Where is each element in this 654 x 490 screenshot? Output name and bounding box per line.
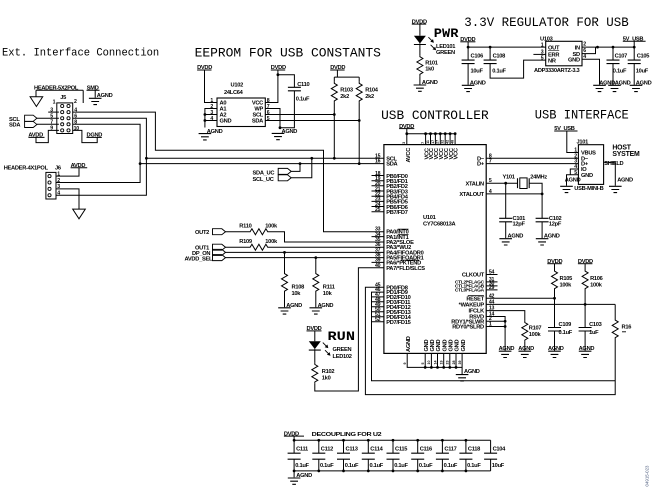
wire 5V_USB to VBUS xyxy=(567,131,579,153)
junction C106 xyxy=(467,46,470,49)
wire U103 IN to 5V_USB xyxy=(582,46,634,48)
junction C110 branch xyxy=(277,73,280,76)
wire DVDD to pullup rail xyxy=(334,70,359,82)
junction rail dots top xyxy=(293,439,296,442)
resistor R102 1k0 xyxy=(312,363,318,384)
wire R111 to AGND xyxy=(315,293,317,307)
junction WAKEUP/R106 xyxy=(584,303,587,306)
capacitor C118 0.1uF xyxy=(465,440,467,471)
wire SMD pad to AGND xyxy=(87,90,100,98)
resistor R101 1k0 xyxy=(417,55,423,76)
capacitor C102 12pF xyxy=(536,218,549,222)
svg-text:PB7/FD7: PB7/FD7 xyxy=(386,210,408,216)
wire C105 to AGND xyxy=(633,64,635,85)
svg-text:1k0: 1k0 xyxy=(322,375,331,381)
junction R104/U101 SDA xyxy=(358,162,361,165)
wire bottom rail to AGND xyxy=(293,471,295,477)
svg-text:R102: R102 xyxy=(322,369,335,375)
wire R108 to AGND xyxy=(284,293,286,307)
led LED102 GREEN xyxy=(309,341,321,350)
svg-text:GND: GND xyxy=(449,340,455,352)
wire OUT1 to R109 xyxy=(226,246,249,248)
svg-text:0.1uF: 0.1uF xyxy=(467,463,481,469)
svg-text:100k: 100k xyxy=(265,223,278,229)
wire XTALOUT xyxy=(486,193,542,195)
wire C108 to U103 NR xyxy=(490,60,546,78)
junction A2 xyxy=(204,113,207,116)
svg-text:C108: C108 xyxy=(493,54,506,60)
svg-text:AVDD_SEL: AVDD_SEL xyxy=(185,256,213,262)
svg-text:RESET: RESET xyxy=(466,296,484,302)
svg-text:R101: R101 xyxy=(425,60,438,66)
wire PB stubs xyxy=(372,176,384,212)
resistor R111 10k xyxy=(313,272,319,293)
svg-text:LED102: LED102 xyxy=(333,354,352,360)
junction RESET/R105 xyxy=(553,297,556,300)
junction XTALIN/C101 xyxy=(504,182,507,185)
junction R104/EEPROM SDA xyxy=(358,119,361,122)
bottom GND rail xyxy=(407,353,462,374)
svg-text:XTALIN: XTALIN xyxy=(465,181,484,187)
junction C105 xyxy=(633,46,636,49)
wire RESET row xyxy=(486,297,554,299)
wire J5 pin8 to SDA vertical xyxy=(73,124,141,163)
svg-text:C118: C118 xyxy=(468,447,480,453)
pin numbers GND xyxy=(403,361,462,365)
wire DVDD to VCC rail xyxy=(407,129,455,145)
svg-text:2k2: 2k2 xyxy=(365,94,374,100)
junction SCL/J5 xyxy=(145,157,148,160)
capacitor C115 0.1uF xyxy=(392,440,394,471)
pin numbers VCC xyxy=(402,140,454,144)
wire J5 pin10 to DGND xyxy=(73,130,98,142)
wire R105 to RESET xyxy=(554,291,556,299)
ground triangle (J6) xyxy=(73,209,86,219)
svg-text:04915-023: 04915-023 xyxy=(644,465,649,487)
wire VCC pin8 to DVDD xyxy=(265,70,278,103)
svg-text:SDA: SDA xyxy=(386,162,397,168)
capacitor C107 0.1uF xyxy=(612,47,614,60)
svg-text:1uF: 1uF xyxy=(589,330,599,336)
wire U103 SD tie to IN xyxy=(582,47,596,54)
svg-text:D+: D+ xyxy=(477,162,485,168)
wire R110 to PA2 xyxy=(272,232,384,242)
svg-text:PWR: PWR xyxy=(434,27,459,41)
junction GND rail dots xyxy=(424,366,427,369)
junction GND xyxy=(204,119,207,122)
wire D- U101 to J101 xyxy=(486,157,578,159)
svg-text:Y101: Y101 xyxy=(503,174,515,180)
wire WP pin7 to AGND xyxy=(265,109,280,128)
svg-text:19: 19 xyxy=(440,361,444,365)
wire SDA flag to J5 pin7 xyxy=(37,123,59,125)
svg-text:0.1uF: 0.1uF xyxy=(492,69,506,75)
svg-text:GREEN: GREEN xyxy=(333,347,352,353)
svg-text:3.3V REGULATOR FOR USB: 3.3V REGULATOR FOR USB xyxy=(464,16,629,30)
wire DVDD to R105 xyxy=(554,264,556,270)
svg-text:GND: GND xyxy=(220,119,232,125)
svg-text:R107: R107 xyxy=(529,326,542,332)
wire R104 to SDA row xyxy=(358,103,360,164)
svg-text:USB CONTROLLER: USB CONTROLLER xyxy=(381,109,489,123)
capacitor C111 0.1uF xyxy=(293,440,295,471)
svg-text:0.1uF: 0.1uF xyxy=(613,69,627,75)
wire to R111 xyxy=(315,258,317,272)
wire CLKOUT CTL stubs xyxy=(486,275,497,290)
svg-text:GND: GND xyxy=(424,340,430,352)
junction SDA/J5 xyxy=(139,162,142,165)
svg-text:PD7/FD15: PD7/FD15 xyxy=(386,320,410,326)
svg-text:10uF: 10uF xyxy=(636,69,649,75)
svg-text:SCL_UC: SCL_UC xyxy=(253,177,274,183)
svg-text:GND: GND xyxy=(442,340,448,352)
svg-text:XTALOUT: XTALOUT xyxy=(459,192,484,198)
pin numbers J5 xyxy=(50,99,79,132)
capacitor C116 0.1uF xyxy=(417,440,419,471)
svg-text:SYSTEM: SYSTEM xyxy=(612,151,640,158)
svg-text:11: 11 xyxy=(426,140,430,144)
svg-text:C111: C111 xyxy=(296,447,308,453)
svg-text:U102: U102 xyxy=(231,83,244,89)
svg-text:GND: GND xyxy=(461,340,467,352)
wire R16 to bottom loop H2 xyxy=(365,287,615,394)
svg-text:CLKOUT: CLKOUT xyxy=(462,273,485,279)
svg-text:100k: 100k xyxy=(560,282,573,288)
led LED101 GREEN xyxy=(414,36,426,45)
wire OUT2 to R110 xyxy=(226,231,249,233)
svg-text:0.1uF: 0.1uF xyxy=(320,463,334,469)
svg-text:PA7/*FLD/SLCS: PA7/*FLD/SLCS xyxy=(386,266,425,272)
svg-text:24LC64: 24LC64 xyxy=(224,90,244,96)
svg-text:R110: R110 xyxy=(239,223,251,229)
svg-text:R105: R105 xyxy=(560,276,573,282)
svg-text:100k: 100k xyxy=(529,332,542,338)
wire DP_ON to PA4 xyxy=(226,251,384,253)
wire C103 to AGND xyxy=(584,331,586,351)
svg-text:C113: C113 xyxy=(346,447,358,453)
svg-text:AGND: AGND xyxy=(565,177,581,183)
svg-text:5: 5 xyxy=(421,363,425,365)
wire RSVD RDY1 RDY0 tie xyxy=(486,317,505,351)
capacitor C104 10uF xyxy=(490,440,492,471)
svg-text:AGND: AGND xyxy=(464,369,480,375)
wire SDA bus row xyxy=(140,163,384,165)
wire AVDD to J6 pin1 xyxy=(56,168,79,176)
svg-text:28: 28 xyxy=(452,361,456,365)
resistor R108 10k xyxy=(282,272,288,293)
svg-text:SDA: SDA xyxy=(252,119,263,125)
wire SDA_UC to SDA xyxy=(291,164,300,172)
wire D+ U101 to J101 xyxy=(486,163,578,165)
wire J5 pin6 to SCL vertical xyxy=(73,118,147,158)
resistor R103 2k2 xyxy=(331,82,337,103)
svg-text:AGND: AGND xyxy=(406,336,412,352)
svg-text:3: 3 xyxy=(402,142,406,144)
svg-text:USB INTERFACE: USB INTERFACE xyxy=(535,109,629,123)
junction SD xyxy=(596,46,599,49)
svg-text:SDA: SDA xyxy=(9,122,20,128)
wire IFCLK to R107 xyxy=(486,311,525,321)
capacitor C105 10uF xyxy=(633,47,635,60)
wire SCL bus row xyxy=(146,157,384,159)
svg-text:OUT: OUT xyxy=(548,45,560,51)
connector J6 xyxy=(46,172,56,199)
wire SCL_UC to SCL xyxy=(291,158,312,178)
wire C106 to AGND xyxy=(467,64,469,85)
svg-text:1: 1 xyxy=(541,42,544,48)
svg-text:GND: GND xyxy=(436,340,442,352)
svg-text:R108: R108 xyxy=(292,285,305,291)
wire C101 stub xyxy=(505,183,507,218)
junction SDA_UC xyxy=(299,162,302,165)
svg-text:27: 27 xyxy=(436,140,440,144)
svg-text:NR: NR xyxy=(548,58,556,64)
svg-text:R109: R109 xyxy=(239,239,252,245)
svg-text:10k: 10k xyxy=(323,291,333,297)
wire R106 to WAKEUP xyxy=(584,291,586,305)
svg-text:C117: C117 xyxy=(444,447,456,453)
svg-text:VCC: VCC xyxy=(454,148,460,159)
wire R107 to AGND xyxy=(524,342,526,351)
ic U101 CY7C68013A box xyxy=(384,145,486,354)
svg-text:0.1uF: 0.1uF xyxy=(370,463,384,469)
junction C108 xyxy=(489,46,492,49)
wire PD2-PD7 stubs xyxy=(372,297,384,322)
wire PA1 PA6 stubs xyxy=(372,237,384,263)
wire SCL flag to J5 pin5 xyxy=(37,117,59,119)
svg-text:10uF: 10uF xyxy=(492,463,505,469)
wire C110 to AGND xyxy=(280,91,294,128)
svg-text:0.1uF: 0.1uF xyxy=(444,463,458,469)
svg-text:AVCC: AVCC xyxy=(406,148,412,163)
svg-text:24MHz: 24MHz xyxy=(530,174,547,180)
wire C109 to AGND xyxy=(554,331,556,351)
wire R102 to PA7 loop xyxy=(315,268,384,391)
capacitor C114 0.1uF xyxy=(367,440,369,471)
wire decoupling top rail xyxy=(294,439,491,441)
svg-text:C105: C105 xyxy=(637,54,650,60)
svg-text:0.1uF: 0.1uF xyxy=(295,463,309,469)
wire branch to C110 xyxy=(278,75,295,88)
svg-text:32: 32 xyxy=(441,140,445,144)
wire EEPROM SCL pin6 xyxy=(265,114,334,116)
svg-text:16: 16 xyxy=(375,159,381,165)
svg-text:23: 23 xyxy=(446,361,450,365)
junction R111 xyxy=(314,256,317,259)
wire J6 pin4 to SCL net xyxy=(56,158,146,195)
svg-text:DECOUPLING FOR U2: DECOUPLING FOR U2 xyxy=(312,432,382,438)
svg-text:7: 7 xyxy=(421,142,425,144)
svg-text:2k2: 2k2 xyxy=(340,94,349,100)
svg-text:U101: U101 xyxy=(423,215,436,221)
svg-text:R111: R111 xyxy=(323,285,335,291)
svg-text:*WAKEUP: *WAKEUP xyxy=(459,303,485,309)
svg-text:10: 10 xyxy=(427,361,431,365)
capacitor C108 0.1uF xyxy=(489,47,491,60)
capacitor C103 1uF on WAKEUP xyxy=(584,304,586,327)
wire WAKEUP row xyxy=(486,303,615,305)
capacitor C112 0.1uF xyxy=(318,440,320,471)
svg-text:42: 42 xyxy=(446,140,450,144)
svg-text:GREEN: GREEN xyxy=(436,50,455,56)
wire DVDD to LED102 xyxy=(314,331,316,341)
wire DVDD rail to U103 OUT xyxy=(468,42,546,47)
svg-text:2: 2 xyxy=(74,99,77,105)
wire LED102 to R102 xyxy=(314,350,316,363)
svg-text:ADP3330ARTZ-3.3: ADP3330ARTZ-3.3 xyxy=(534,68,580,74)
capacitor C101 12pF xyxy=(499,218,512,222)
svg-text:48: 48 xyxy=(450,140,454,144)
svg-text:RDY0/*SLRD: RDY0/*SLRD xyxy=(452,325,484,331)
wire DVDD to top rail xyxy=(293,436,295,440)
wire A1 A2 GND tie xyxy=(205,109,217,128)
left pin names xyxy=(386,156,425,326)
wire AVDD_SEL to PA5 xyxy=(226,257,384,259)
capacitor C109 0.1uF on RESET xyxy=(554,298,556,327)
resistor R106 100k xyxy=(582,270,588,291)
capacitor C117 0.1uF xyxy=(441,440,443,471)
resistor R16 xyxy=(612,319,618,340)
wire C101 to AGND xyxy=(505,222,507,238)
svg-text:GND: GND xyxy=(568,58,580,64)
svg-text:GND: GND xyxy=(455,340,461,352)
svg-text:RUN: RUN xyxy=(328,330,356,344)
resistor R104 2k2 xyxy=(356,82,362,103)
svg-text:17: 17 xyxy=(431,140,435,144)
svg-text:39: 39 xyxy=(458,361,462,365)
svg-text:10: 10 xyxy=(74,126,80,132)
wire J101 IO/GND to AGND xyxy=(567,169,579,186)
wire VCC pin drops xyxy=(426,134,456,145)
svg-text:C112: C112 xyxy=(321,447,333,453)
svg-text:2: 2 xyxy=(583,41,586,47)
svg-text:100k: 100k xyxy=(265,239,278,245)
svg-text:5: 5 xyxy=(541,56,544,62)
svg-text:HEADER-4X1POL: HEADER-4X1POL xyxy=(4,166,49,172)
wire DVDD to A0 xyxy=(205,70,218,103)
wire C102 to AGND xyxy=(541,222,543,238)
wire EEPROM SDA pin5 xyxy=(265,120,359,122)
wire bottom loop H1 PD1 xyxy=(372,292,616,381)
left pin numbers xyxy=(375,153,381,323)
svg-text:CTL0/*FLAGA: CTL0/*FLAGA xyxy=(455,288,485,294)
wire WAKEUP to R16 xyxy=(614,304,616,318)
wire DVDD to LED101 xyxy=(419,24,421,36)
wire J6 pin2 to SDA net xyxy=(56,164,140,183)
wire R109 to PA3 xyxy=(272,246,384,248)
wire R101 to AGND xyxy=(419,76,421,84)
wire J6 pin3 to ground triangle xyxy=(56,189,79,209)
right pin names xyxy=(451,156,485,330)
wire R103 to SCL row xyxy=(333,103,335,159)
junction WP/C110 ground xyxy=(279,126,282,129)
svg-text:IN: IN xyxy=(575,45,580,51)
svg-text:R103: R103 xyxy=(340,87,353,93)
svg-text:C106: C106 xyxy=(471,54,484,60)
overline RESET xyxy=(398,229,484,295)
wire header label underline to triangle xyxy=(36,90,83,103)
svg-text:10uF: 10uF xyxy=(471,69,484,75)
wire crystal to XTALOUT net xyxy=(529,183,542,218)
svg-text:0.1uF: 0.1uF xyxy=(559,330,573,336)
svg-text:1k0: 1k0 xyxy=(425,67,434,73)
capacitor C113 0.1uF xyxy=(343,440,345,471)
svg-text:0.1uF: 0.1uF xyxy=(296,97,310,103)
svg-text:R104: R104 xyxy=(365,87,379,93)
svg-text:C104: C104 xyxy=(493,447,507,453)
junction AVCC rail xyxy=(405,132,408,135)
svg-text:SDA_UC: SDA_UC xyxy=(253,171,275,177)
svg-text:1: 1 xyxy=(53,100,56,106)
svg-text:AGND: AGND xyxy=(617,177,633,183)
svg-text:0.1uF: 0.1uF xyxy=(345,463,359,469)
wire J5 pin4 long net to PA0 xyxy=(73,112,384,232)
svg-text:GND: GND xyxy=(430,340,436,352)
svg-text:C107: C107 xyxy=(615,54,628,60)
wire C107 to AGND xyxy=(612,64,614,85)
wire U103 ERR stub xyxy=(533,53,545,55)
svg-text:EEPROM FOR USB CONSTANTS: EEPROM FOR USB CONSTANTS xyxy=(195,47,381,61)
wire J5 pin9 to AVDD xyxy=(36,130,59,142)
right pin numbers xyxy=(489,153,495,327)
junction R103/EEPROM SCL xyxy=(333,113,336,116)
svg-text:0.1uF: 0.1uF xyxy=(419,463,433,469)
wire LED101 to R101 xyxy=(419,45,421,55)
svg-text:12pF: 12pF xyxy=(513,222,526,228)
wire DVDD to R106 xyxy=(584,264,586,270)
wire decoupling bottom rail xyxy=(294,470,491,472)
junction RDY0 xyxy=(504,325,507,328)
svg-text:OUT2: OUT2 xyxy=(195,230,209,236)
resistor R107 100k xyxy=(522,321,528,342)
junction SCL_UC xyxy=(310,157,313,160)
svg-text:100k: 100k xyxy=(590,282,603,288)
junction R103/U101 SCL xyxy=(333,157,336,160)
svg-text:14: 14 xyxy=(433,361,437,365)
svg-text:10k: 10k xyxy=(292,291,302,297)
junction C107 xyxy=(612,46,615,49)
junction RDY1 xyxy=(504,320,507,323)
svg-text:R106: R106 xyxy=(590,276,603,282)
wire XTALIN xyxy=(486,182,517,184)
svg-text:CY7C68013A: CY7C68013A xyxy=(423,222,455,228)
svg-text:Ext. Interface Connection: Ext. Interface Connection xyxy=(2,48,159,60)
junction XTALOUT xyxy=(541,193,544,196)
svg-text:GND: GND xyxy=(581,173,593,179)
wire to R108 xyxy=(284,252,286,272)
capacitor C106 10uF xyxy=(467,47,469,60)
svg-text:USB-MINI-B: USB-MINI-B xyxy=(574,186,603,192)
junction VCC drops xyxy=(424,132,427,135)
svg-text:C115: C115 xyxy=(395,447,407,453)
wire SHIELD to AGND xyxy=(604,162,616,186)
svg-text:SHIELD: SHIELD xyxy=(604,161,623,167)
svg-text:C114: C114 xyxy=(370,447,383,453)
svg-text:9: 9 xyxy=(403,363,407,365)
resistor R105 100k xyxy=(552,270,558,291)
svg-text:J5: J5 xyxy=(60,95,66,101)
wire U103 GND to AGND xyxy=(582,59,600,85)
wire J5 pin3 stub xyxy=(48,111,59,113)
svg-text:R16: R16 xyxy=(622,325,632,331)
ground triangle (chassis) xyxy=(30,97,43,107)
svg-text:0.1uF: 0.1uF xyxy=(394,463,408,469)
junction rail dots bottom xyxy=(293,470,296,473)
svg-text:12pF: 12pF xyxy=(549,222,562,228)
svg-text:C116: C116 xyxy=(420,447,432,453)
junction R108 xyxy=(283,251,286,254)
